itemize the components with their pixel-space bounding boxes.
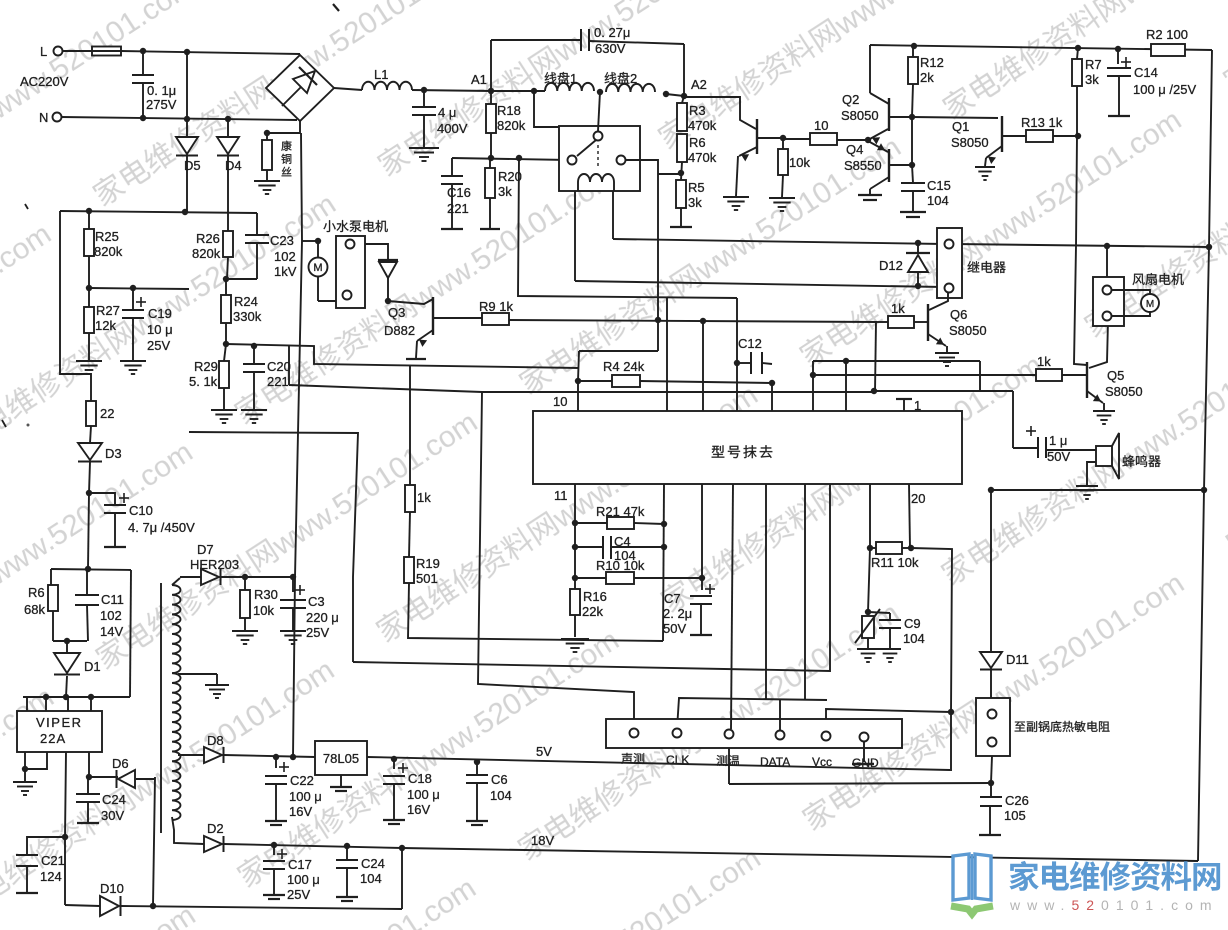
svg-text:R30: R30 bbox=[254, 587, 278, 602]
svg-text:11: 11 bbox=[554, 488, 568, 503]
svg-text:221: 221 bbox=[447, 201, 469, 216]
svg-text:104: 104 bbox=[360, 871, 382, 886]
svg-text:C18: C18 bbox=[408, 771, 432, 786]
svg-text:2. 2μ: 2. 2μ bbox=[663, 606, 692, 621]
svg-text:4 μ: 4 μ bbox=[438, 105, 456, 120]
svg-text:D8: D8 bbox=[207, 733, 224, 748]
svg-text:C9: C9 bbox=[904, 616, 921, 631]
svg-text:820k: 820k bbox=[192, 246, 221, 261]
svg-text:C11: C11 bbox=[101, 592, 124, 607]
svg-text:221: 221 bbox=[267, 374, 289, 389]
svg-text:1k: 1k bbox=[417, 490, 431, 505]
svg-text:C26: C26 bbox=[1005, 793, 1029, 808]
svg-text:L: L bbox=[40, 44, 47, 59]
svg-text:820k: 820k bbox=[94, 244, 123, 259]
svg-text:R24: R24 bbox=[234, 294, 258, 309]
svg-text:Vcc: Vcc bbox=[812, 755, 832, 769]
svg-text:Q3: Q3 bbox=[388, 305, 405, 320]
svg-text:Q1: Q1 bbox=[952, 119, 969, 134]
svg-text:78L05: 78L05 bbox=[323, 751, 359, 766]
svg-text:5V: 5V bbox=[536, 744, 552, 759]
svg-text:104: 104 bbox=[927, 193, 949, 208]
svg-text:R27: R27 bbox=[96, 303, 120, 318]
svg-text:C22: C22 bbox=[290, 773, 314, 788]
svg-text:100 μ /25V: 100 μ /25V bbox=[1133, 82, 1196, 97]
svg-text:25V: 25V bbox=[306, 625, 329, 640]
svg-text:Q5: Q5 bbox=[1107, 368, 1124, 383]
svg-text:C19: C19 bbox=[148, 306, 172, 321]
svg-text:A2: A2 bbox=[691, 77, 707, 92]
svg-text:CLK: CLK bbox=[666, 753, 689, 767]
svg-text:M: M bbox=[313, 262, 322, 274]
svg-text:M: M bbox=[1146, 299, 1154, 310]
svg-text:D6: D6 bbox=[112, 756, 129, 771]
svg-text:R6: R6 bbox=[28, 585, 45, 600]
svg-text:S8550: S8550 bbox=[844, 158, 882, 173]
svg-text:R7: R7 bbox=[1085, 57, 1102, 72]
svg-text:C21: C21 bbox=[41, 853, 65, 868]
svg-text:R9 1k: R9 1k bbox=[479, 299, 513, 314]
svg-text:104: 104 bbox=[903, 631, 925, 646]
svg-text:R18: R18 bbox=[497, 103, 521, 118]
svg-text:D1: D1 bbox=[84, 659, 101, 674]
svg-text:L1: L1 bbox=[374, 67, 388, 82]
svg-text:10: 10 bbox=[814, 118, 828, 133]
svg-text:R10 10k: R10 10k bbox=[596, 558, 645, 573]
svg-text:R29: R29 bbox=[194, 359, 218, 374]
svg-text:30V: 30V bbox=[101, 808, 124, 823]
svg-text:1 μ: 1 μ bbox=[1049, 433, 1067, 448]
svg-text:501: 501 bbox=[416, 571, 438, 586]
svg-text:275V: 275V bbox=[146, 97, 177, 112]
svg-text:820k: 820k bbox=[497, 118, 526, 133]
svg-text:AC220V: AC220V bbox=[20, 74, 69, 89]
svg-text:S8050: S8050 bbox=[841, 108, 879, 123]
svg-text:C3: C3 bbox=[308, 594, 325, 609]
svg-text:C24: C24 bbox=[102, 792, 126, 807]
svg-text:1k: 1k bbox=[1037, 354, 1051, 369]
svg-text:3k: 3k bbox=[1085, 72, 1099, 87]
svg-text:R4 24k: R4 24k bbox=[603, 359, 645, 374]
svg-text:18V: 18V bbox=[531, 833, 554, 848]
svg-text:2k: 2k bbox=[920, 70, 934, 85]
svg-text:D11: D11 bbox=[1006, 652, 1029, 667]
svg-text:R11 10k: R11 10k bbox=[871, 555, 919, 570]
svg-text:100 μ: 100 μ bbox=[287, 872, 320, 887]
svg-text:C24: C24 bbox=[361, 856, 385, 871]
svg-text:102: 102 bbox=[274, 249, 296, 264]
svg-text:N: N bbox=[39, 110, 48, 125]
svg-text:1kV: 1kV bbox=[274, 264, 297, 279]
svg-text:1: 1 bbox=[914, 398, 921, 413]
svg-text:www.520101.com: www.520101.com bbox=[1009, 897, 1219, 913]
svg-text:2: 2 bbox=[630, 71, 637, 86]
svg-text:0. 1μ: 0. 1μ bbox=[147, 83, 176, 98]
svg-text:C20: C20 bbox=[267, 359, 291, 374]
svg-text:R12: R12 bbox=[920, 55, 944, 70]
svg-text:C10: C10 bbox=[129, 503, 153, 518]
svg-text:220 μ: 220 μ bbox=[306, 610, 339, 625]
svg-text:C4: C4 bbox=[614, 534, 631, 549]
svg-text:14V: 14V bbox=[100, 624, 123, 639]
svg-text:330k: 330k bbox=[233, 309, 262, 324]
svg-text:470k: 470k bbox=[688, 150, 717, 165]
svg-text:D12: D12 bbox=[879, 258, 903, 273]
svg-text:0. 27μ: 0. 27μ bbox=[594, 25, 630, 40]
svg-text:A1: A1 bbox=[471, 72, 487, 87]
svg-text:68k: 68k bbox=[24, 602, 45, 617]
svg-text:R2 100: R2 100 bbox=[1146, 27, 1188, 42]
svg-text:50V: 50V bbox=[1047, 449, 1070, 464]
svg-text:C15: C15 bbox=[927, 178, 951, 193]
svg-text:D3: D3 bbox=[105, 446, 122, 461]
svg-text:124: 124 bbox=[40, 869, 62, 884]
svg-text:C17: C17 bbox=[288, 857, 312, 872]
svg-text:S8050: S8050 bbox=[1105, 384, 1143, 399]
svg-text:10 μ: 10 μ bbox=[147, 322, 173, 337]
svg-text:C6: C6 bbox=[491, 772, 508, 787]
svg-text:D882: D882 bbox=[384, 323, 415, 338]
svg-text:100 μ: 100 μ bbox=[407, 787, 440, 802]
svg-text:R6: R6 bbox=[689, 135, 706, 150]
svg-text:102: 102 bbox=[100, 608, 122, 623]
svg-text:10k: 10k bbox=[789, 155, 810, 170]
svg-text:16V: 16V bbox=[289, 804, 312, 819]
svg-text:R19: R19 bbox=[416, 556, 440, 571]
svg-text:DATA: DATA bbox=[760, 755, 790, 769]
svg-text:104: 104 bbox=[490, 788, 512, 803]
svg-text:R13 1k: R13 1k bbox=[1021, 115, 1063, 130]
svg-text:12k: 12k bbox=[95, 318, 116, 333]
svg-text:D7: D7 bbox=[197, 542, 214, 557]
svg-text:3k: 3k bbox=[498, 184, 512, 199]
svg-text:105: 105 bbox=[1004, 808, 1026, 823]
svg-text:D4: D4 bbox=[225, 158, 242, 173]
svg-text:VIPER: VIPER bbox=[36, 715, 83, 730]
svg-text:R26: R26 bbox=[196, 231, 220, 246]
svg-text:R21 47k: R21 47k bbox=[596, 504, 645, 519]
svg-text:1k: 1k bbox=[891, 301, 905, 316]
svg-text:5. 1k: 5. 1k bbox=[189, 374, 218, 389]
svg-text:HER203: HER203 bbox=[190, 557, 239, 572]
svg-text:S8050: S8050 bbox=[949, 323, 987, 338]
svg-text:1: 1 bbox=[570, 71, 577, 86]
svg-text:R25: R25 bbox=[95, 229, 119, 244]
svg-text:10: 10 bbox=[553, 394, 567, 409]
svg-text:630V: 630V bbox=[595, 41, 626, 56]
svg-text:C16: C16 bbox=[447, 185, 471, 200]
svg-text:Q6: Q6 bbox=[950, 307, 967, 322]
svg-text:22k: 22k bbox=[582, 604, 603, 619]
svg-text:10k: 10k bbox=[253, 603, 274, 618]
svg-text:470k: 470k bbox=[688, 118, 717, 133]
svg-text:D2: D2 bbox=[207, 821, 224, 836]
svg-text:50V: 50V bbox=[663, 621, 686, 636]
svg-text:C12: C12 bbox=[738, 336, 762, 351]
svg-text:D10: D10 bbox=[100, 881, 124, 896]
svg-text:R16: R16 bbox=[583, 589, 607, 604]
svg-text:C14: C14 bbox=[1134, 65, 1158, 80]
svg-text:Q2: Q2 bbox=[842, 92, 859, 107]
svg-text:4. 7μ /450V: 4. 7μ /450V bbox=[128, 520, 195, 535]
svg-text:R5: R5 bbox=[688, 180, 705, 195]
svg-text:R3: R3 bbox=[689, 103, 706, 118]
svg-text:20: 20 bbox=[911, 491, 925, 506]
svg-text:16V: 16V bbox=[407, 802, 430, 817]
svg-text:Q4: Q4 bbox=[846, 142, 863, 157]
svg-text:400V: 400V bbox=[437, 121, 468, 136]
svg-text:C7: C7 bbox=[664, 591, 681, 606]
svg-text:C23: C23 bbox=[270, 233, 294, 248]
svg-text:3k: 3k bbox=[688, 195, 702, 210]
svg-text:25V: 25V bbox=[287, 887, 310, 902]
svg-text:25V: 25V bbox=[147, 338, 170, 353]
svg-text:100 μ: 100 μ bbox=[289, 789, 322, 804]
svg-text:22: 22 bbox=[100, 406, 114, 421]
svg-text:22A: 22A bbox=[40, 731, 66, 746]
svg-text:S8050: S8050 bbox=[951, 135, 989, 150]
svg-text:D5: D5 bbox=[184, 158, 201, 173]
